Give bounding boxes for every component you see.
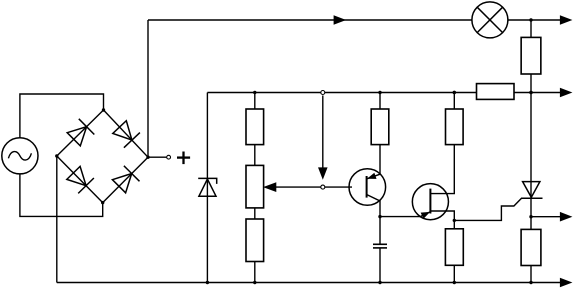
- wire AC source top lead: [20, 94, 104, 138]
- wire R5 bottom stub: [453, 265, 455, 282]
- zener diode VD5 cathode bar: [198, 178, 217, 184]
- thyristor VS1 cathode bar: [521, 197, 543, 199]
- diode D1 (left to top): [67, 127, 86, 146]
- wire VT1 collector lead: [367, 195, 380, 217]
- wire lamp junction down to R7: [530, 20, 532, 37]
- node R6 bottom: [529, 281, 532, 284]
- node rail/R1: [253, 91, 256, 94]
- node rail/R2: [378, 91, 381, 94]
- wire bridge edge bottom-right: [103, 157, 148, 202]
- resistor R1: [246, 109, 264, 145]
- arrow output bottom rail: [560, 278, 571, 286]
- node bridge left: [55, 154, 58, 157]
- wire C1 bottom stub: [379, 248, 381, 283]
- wire reference rail right segment: [514, 92, 561, 94]
- lamp cross line 2: [477, 7, 502, 32]
- wire VT2 base1 to thyristor gate: [454, 198, 521, 220]
- node VT1 collector junction: [378, 215, 381, 218]
- potentiometer RP: [246, 165, 264, 208]
- resistor R6: [521, 229, 541, 265]
- wire bridge edge left-bottom: [57, 156, 103, 203]
- wire R7 to rail junction: [530, 74, 532, 93]
- capacitor C1 top plate: [373, 243, 387, 245]
- terminal rail tap (open): [321, 91, 325, 95]
- wire reference rail: [207, 92, 476, 94]
- wire wiper to Q1 base: [272, 186, 352, 188]
- thyristor VS1 triangle: [523, 182, 540, 198]
- diode D3 (left to bottom): [67, 166, 86, 185]
- arrowhead VT2 emitter: [421, 212, 429, 218]
- node bridge right: [146, 156, 149, 159]
- wire R3 bottom stub: [254, 262, 256, 283]
- node bridge top: [102, 108, 105, 111]
- node C1 bottom: [378, 281, 381, 284]
- wire VT2 base2 lead: [430, 145, 454, 194]
- wire DC plus from bridge right node up: [147, 20, 149, 157]
- wire R1 top stub: [254, 93, 256, 110]
- node top rail / R7 junction: [529, 18, 532, 21]
- node rail/R4 top right: [453, 91, 456, 94]
- resistor R4: [446, 109, 464, 145]
- wire R1-RP: [254, 145, 256, 166]
- wire R5 top stub: [453, 220, 455, 228]
- arrowhead adjustment pointer: [319, 168, 327, 179]
- wire R6 bottom stub: [530, 266, 532, 283]
- node R5 bottom: [453, 281, 456, 284]
- node R3 bottom: [253, 281, 256, 284]
- wire adjustment arrow shaft: [322, 96, 324, 169]
- wire R4 top stub: [453, 93, 455, 110]
- node rail right junction: [529, 91, 532, 94]
- capacitor C1 bottom plate: [373, 247, 387, 249]
- wire to R6: [530, 217, 532, 230]
- node rail/R4: [453, 91, 456, 94]
- terminal + (open): [167, 155, 171, 159]
- node rail/thyristor column: [529, 91, 532, 94]
- diode D4 (bottom to right): [112, 174, 131, 193]
- wire top rail right of lamp: [508, 19, 561, 21]
- arrow wiper into RP: [264, 183, 276, 192]
- resistor R3: [246, 219, 264, 262]
- terminal wiper (open): [321, 185, 325, 189]
- wire VT1 collector to VT2 emitter: [380, 212, 430, 217]
- zener diode VD5 triangle: [199, 179, 216, 196]
- wire zener column: [206, 93, 208, 283]
- wire VT2 base1 lead: [430, 211, 454, 220]
- wire cathode output tap: [531, 216, 561, 218]
- arrow current direction on top rail: [334, 16, 345, 24]
- arrow output reference rail: [560, 88, 571, 96]
- wire thyristor anode: [530, 93, 532, 199]
- wire bridge edge left-top: [57, 110, 104, 156]
- arrowhead VT1 emitter (PNP): [368, 173, 376, 178]
- arrow output cathode tap: [560, 213, 571, 221]
- lamp E1: [472, 2, 508, 38]
- wire to + terminal: [148, 156, 166, 158]
- wire R2 to VT1 emitter: [367, 145, 380, 179]
- wire top rail left of lamp: [148, 19, 472, 21]
- lamp cross line 1: [477, 7, 502, 32]
- resistor R5: [445, 229, 463, 265]
- sine symbol inside G1: [8, 152, 31, 160]
- wire RP-R3: [254, 208, 256, 219]
- node VT2 base1 junction: [453, 219, 456, 222]
- wire collector to capacitor C1: [379, 217, 381, 245]
- wire AC source bottom lead: [20, 174, 103, 217]
- resistor R7: [521, 37, 541, 74]
- node zener bottom: [206, 281, 209, 284]
- wire bridge edge top-right: [104, 110, 149, 157]
- wire R2 top stub: [379, 93, 381, 110]
- resistor R8 (horizontal): [477, 84, 515, 100]
- wire bottom rail: [57, 282, 561, 284]
- node bridge bottom: [101, 201, 104, 204]
- transistor VT1 body: [349, 169, 386, 206]
- resistor R2: [371, 109, 389, 145]
- label +: [177, 152, 190, 165]
- transistor VT2 base bar: [429, 189, 431, 214]
- wire DC minus from bridge left node: [56, 156, 58, 283]
- wire thyristor cathode: [530, 198, 532, 217]
- transistor VT1 base bar: [366, 176, 368, 198]
- arrow output top rail: [560, 16, 571, 24]
- node thyristor cathode junction: [529, 215, 532, 218]
- AC source G1: [2, 138, 38, 174]
- diode D2 (top to right): [113, 121, 132, 140]
- transistor VT2 (UJT) body: [412, 184, 448, 220]
